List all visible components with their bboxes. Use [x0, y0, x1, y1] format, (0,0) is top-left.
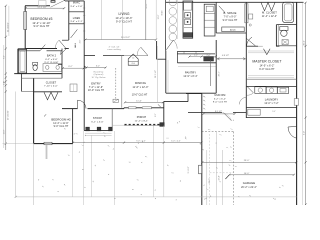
- svg-text:2'-0": 2'-0": [194, 55, 198, 57]
- svg-text:LAUNDRY: LAUNDRY: [265, 97, 279, 101]
- svg-text:31'-0": 31'-0": [158, 14, 160, 19]
- svg-text:9'-0" CLG HT: 9'-0" CLG HT: [213, 102, 228, 104]
- svg-text:20'-2" x 22'-4": 20'-2" x 22'-4": [241, 187, 257, 189]
- svg-text:10'-0" CLG HT: 10'-0" CLG HT: [88, 90, 105, 92]
- svg-text:CLOSET: CLOSET: [46, 81, 57, 84]
- svg-text:GARAGE: GARAGE: [243, 181, 256, 185]
- svg-text:11'-6" x 12'-0": 11'-6" x 12'-0": [132, 86, 148, 89]
- svg-text:3'-0": 3'-0": [79, 39, 81, 43]
- svg-text:BEAM: BEAM: [161, 10, 164, 15]
- svg-text:20'-1 1/2": 20'-1 1/2": [155, 70, 157, 78]
- svg-text:DINING: DINING: [135, 81, 147, 85]
- svg-text:5'-0": 5'-0": [272, 111, 276, 113]
- svg-text:7'-0" x 9'-0": 7'-0" x 9'-0": [224, 17, 237, 19]
- svg-text:crown molding: crown molding: [107, 48, 121, 51]
- svg-text:MVAC: MVAC: [73, 2, 80, 5]
- svg-text:12'-0" x 7'-2": 12'-0" x 7'-2": [264, 103, 278, 105]
- svg-text:11'-4" x 12'-4": 11'-4" x 12'-4": [262, 16, 278, 18]
- svg-text:14'-0": 14'-0": [244, 173, 250, 175]
- svg-text:B. SPACE: B. SPACE: [224, 11, 237, 15]
- svg-text:3'-2": 3'-2": [96, 66, 100, 68]
- svg-text:(Optional): (Optional): [94, 73, 104, 76]
- svg-text:12'-4" x 8'-1": 12'-4" x 8'-1": [135, 121, 149, 123]
- svg-text:bench: bench: [230, 30, 237, 32]
- svg-text:20'-2": 20'-2": [209, 178, 211, 183]
- svg-text:3'-4" x 2'-1": 3'-4" x 2'-1": [70, 21, 82, 23]
- svg-text:20'-1": 20'-1": [219, 71, 221, 76]
- svg-text:PORCH: PORCH: [137, 116, 147, 119]
- svg-text:Round Up: Round Up: [94, 71, 105, 73]
- svg-text:7'-2" x 12'-9": 7'-2" x 12'-9": [89, 87, 103, 89]
- svg-text:12'-9" x 8'-4": 12'-9" x 8'-4": [183, 76, 197, 78]
- svg-text:9'-0": 9'-0": [304, 131, 306, 135]
- svg-text:DROP: DROP: [146, 3, 148, 9]
- svg-text:12'-2 1/2": 12'-2 1/2": [37, 7, 46, 9]
- svg-text:7'-10" x 4'-0": 7'-10" x 4'-0": [44, 86, 58, 88]
- svg-text:9'-0" CLG HT: 9'-0" CLG HT: [116, 21, 132, 24]
- svg-text:BATH 2: BATH 2: [47, 55, 57, 58]
- svg-text:STOOP: STOOP: [93, 117, 102, 120]
- svg-text:11'-6": 11'-6": [136, 100, 142, 102]
- svg-text:9'-0" CLG HT: 9'-0" CLG HT: [44, 62, 59, 64]
- svg-text:10: 10: [132, 57, 134, 59]
- svg-text:20'-2 1/2": 20'-2 1/2": [121, 37, 130, 39]
- svg-text:9'-0" x 4'-0": 9'-0" x 4'-0": [136, 140, 146, 142]
- svg-text:5'-2" x 6'-2": 5'-2" x 6'-2": [214, 99, 226, 101]
- svg-text:3'-11": 3'-11": [3, 81, 5, 86]
- svg-text:M. CLOSET: M. CLOSET: [262, 10, 277, 14]
- svg-text:BEDROOM #2: BEDROOM #2: [51, 117, 71, 121]
- svg-text:ENTRY: ENTRY: [91, 82, 101, 86]
- svg-text:10'-0" CLG HT: 10'-0" CLG HT: [132, 93, 148, 96]
- svg-text:6'-2": 6'-2": [3, 55, 5, 59]
- svg-text:4" mult. roll: 4" mult. roll: [109, 45, 120, 48]
- svg-text:19'-10 1/2": 19'-10 1/2": [8, 110, 10, 120]
- svg-text:MUD RM: MUD RM: [215, 94, 226, 97]
- svg-text:2'-0": 2'-0": [207, 55, 211, 57]
- svg-text:4'-8 1/2": 4'-8 1/2": [222, 55, 230, 57]
- svg-text:9'-0" CLG HT: 9'-0" CLG HT: [33, 25, 49, 28]
- svg-text:12'-4" x 11'-6": 12'-4" x 11'-6": [53, 123, 69, 125]
- svg-text:PANTRY: PANTRY: [185, 70, 196, 74]
- svg-text:3'-4" x 2'-6": 3'-4" x 2'-6": [70, 6, 82, 8]
- svg-text:10' Clg. Below: 10' Clg. Below: [91, 77, 106, 79]
- svg-text:3'-1 1/2": 3'-1 1/2": [188, 166, 190, 173]
- svg-text:LINEN: LINEN: [73, 17, 81, 20]
- svg-text:9'-0" CLG HT: 9'-0" CLG HT: [223, 20, 238, 22]
- svg-text:9'-0" CLG HT: 9'-0" CLG HT: [259, 68, 275, 71]
- svg-text:6'-1" x 4'-6": 6'-1" x 4'-6": [91, 122, 103, 124]
- svg-text:8'-1 1/2": 8'-1 1/2": [215, 111, 223, 113]
- svg-text:22'-4": 22'-4": [218, 175, 220, 180]
- svg-text:11'-10 1/2": 11'-10 1/2": [8, 22, 10, 32]
- svg-text:8'-1": 8'-1": [155, 113, 157, 117]
- svg-text:36'-0": 36'-0": [304, 40, 306, 46]
- svg-text:MASTER CLOSET: MASTER CLOSET: [252, 60, 281, 64]
- svg-text:9'-0" CLG HT: 9'-0" CLG HT: [54, 126, 69, 128]
- svg-text:6'-2" x 9'-6": 6'-2" x 9'-6": [45, 59, 57, 61]
- svg-text:11'-6": 11'-6": [3, 129, 5, 134]
- svg-text:HALL: HALL: [74, 42, 77, 48]
- svg-text:8'-2": 8'-2": [68, 66, 72, 68]
- svg-text:BEDROOM #3: BEDROOM #3: [31, 17, 53, 21]
- svg-text:6'-0" x 4'-0": 6'-0" x 4'-0": [171, 140, 181, 142]
- svg-text:23'-0": 23'-0": [244, 160, 250, 162]
- svg-text:LIVING: LIVING: [118, 12, 129, 16]
